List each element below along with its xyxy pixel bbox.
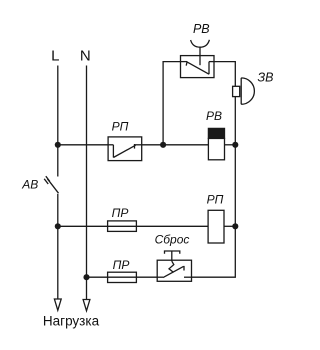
contact RP box xyxy=(108,137,142,161)
breaker AB tick 2 xyxy=(44,179,48,184)
wire N bus xyxy=(86,66,88,300)
button Sbros contact tick xyxy=(183,266,185,271)
wire row1 mid xyxy=(142,144,209,146)
wire L bus upper segment xyxy=(57,66,59,177)
breaker AB tick 1 xyxy=(46,176,50,181)
wire contact RV left stub xyxy=(181,61,188,63)
wire right riser row1-row2 xyxy=(234,145,236,227)
node L row2 junction xyxy=(55,223,61,229)
node N row3 junction xyxy=(83,274,89,280)
svg-text:ЗВ: ЗВ xyxy=(257,70,273,84)
relay coil RP xyxy=(208,210,224,243)
fuse PR1 xyxy=(108,221,137,232)
wire L bus lower segment xyxy=(57,194,59,299)
contact RP tick xyxy=(134,144,136,149)
wire row3 left xyxy=(87,276,158,278)
arrow L load xyxy=(54,299,61,310)
node bell/coil junction xyxy=(232,142,238,148)
wire row1 right xyxy=(225,144,236,146)
bell ZV terminal box xyxy=(233,86,240,96)
wire button Sbros right stub xyxy=(184,276,192,278)
node row2 right junction xyxy=(232,223,238,229)
button Sbros box xyxy=(157,260,191,281)
wire RV contact to bell riser xyxy=(214,62,235,87)
svg-text:L: L xyxy=(51,48,59,65)
wire contact RP left stub xyxy=(108,144,113,146)
fuse PR2 xyxy=(108,272,137,282)
contact RV box xyxy=(181,56,215,78)
contact RV blade xyxy=(187,62,209,74)
button Sbros actuator stem xyxy=(171,251,173,261)
svg-text:ПР: ПР xyxy=(113,258,130,272)
wire contact RV right stub xyxy=(209,61,214,63)
wire bell to row1 xyxy=(234,97,236,145)
wire row2 left xyxy=(58,225,208,227)
time-delay arc of RV contact xyxy=(191,40,210,47)
wire row3 right to riser xyxy=(192,226,236,277)
wire contact RP right stub xyxy=(135,144,142,146)
svg-text:РВ: РВ xyxy=(193,22,210,36)
button Sbros actuator cap xyxy=(165,251,180,254)
bell ZV body xyxy=(241,78,254,104)
svg-text:N: N xyxy=(80,48,91,65)
contact RP blade xyxy=(113,145,135,157)
wire riser left to RV contact xyxy=(163,62,180,145)
relay coil RV body xyxy=(208,138,224,159)
svg-text:РП: РП xyxy=(207,193,224,207)
svg-text:Нагрузка: Нагрузка xyxy=(43,314,100,329)
stem of time-delay xyxy=(199,47,201,66)
node L row1 junction xyxy=(55,142,61,148)
contact RP fixed post xyxy=(112,145,114,158)
wire row1 left xyxy=(58,144,108,146)
button Sbros latch zigzag xyxy=(169,261,174,272)
svg-text:ПР: ПР xyxy=(112,206,129,220)
contact RV tick xyxy=(186,61,187,65)
svg-text:Сброс: Сброс xyxy=(155,233,190,247)
breaker AB blade xyxy=(47,179,58,193)
arrow N load xyxy=(83,300,90,311)
svg-text:АВ: АВ xyxy=(21,177,38,191)
svg-text:РП: РП xyxy=(112,120,129,134)
svg-text:РВ: РВ xyxy=(206,109,222,123)
button Sbros contact blade xyxy=(163,266,184,277)
contact RV fixed post xyxy=(208,62,210,75)
wire row2 right xyxy=(224,225,235,227)
wire button Sbros left stub xyxy=(157,276,163,278)
node riser-left junction xyxy=(160,142,166,148)
relay coil RV (time relay) black block xyxy=(208,128,224,138)
